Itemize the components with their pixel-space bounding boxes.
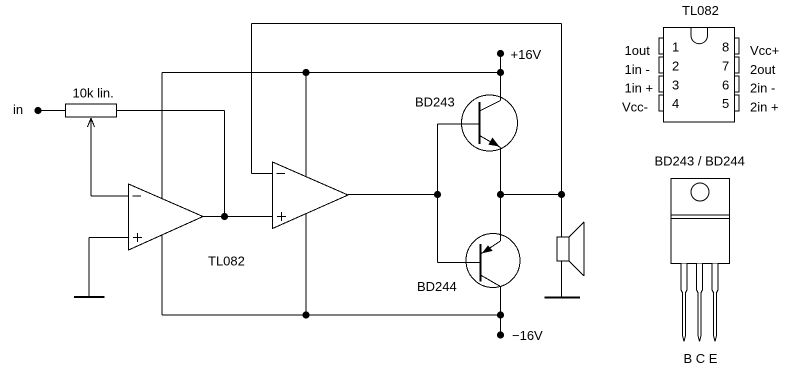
wire Q2 emitter up to output node [500,195,502,242]
IC package TL082 DIP-8 body [664,28,735,123]
wire U1B V+ supply [305,73,307,177]
pin 5 stub [735,95,740,111]
pin 4 stub [659,95,664,111]
speaker LS1 [557,222,584,276]
wire U1B inverting input feedback (left vertical + top rail) [252,24,562,195]
transistor Q2 BD244 PNP [466,234,520,288]
svg-text:6: 6 [722,78,729,93]
node U1A output junction [221,213,228,220]
wire base bus vertical Q1 base to Q2 base [437,124,439,263]
wire to Q1 base [438,123,479,125]
wire Q1 emitter down to output node [500,148,502,195]
wire U1A V- supply (triangle bottom edge to negative rail) [161,235,163,316]
pin 7 stub [735,57,740,73]
node V+ rail at Q1 collector [497,69,504,76]
TO-220 mounting hole [691,183,709,201]
node V- rail to U1B [302,311,309,318]
op-amp U1B TL082 [273,162,349,229]
svg-text:in: in [13,102,23,117]
svg-text:7: 7 [722,59,729,74]
node base drive junction [434,191,441,198]
svg-text:Vcc+: Vcc+ [750,43,779,58]
potentiometer P1 10k lin. body [66,86,117,118]
wire stub to -16V terminal [500,315,502,335]
node emitter output junction [497,191,504,198]
TO-220 leg C [697,264,703,342]
svg-text:TL082: TL082 [208,254,245,269]
wire U1A V+ supply (from +16V rail to triangle top edge) [161,73,163,199]
transistor package TO-220 outline [671,179,730,264]
svg-text:1in -: 1in - [625,62,650,77]
svg-text:5: 5 [722,96,729,111]
svg-text:+16V: +16V [511,47,542,62]
wire U1A output [203,216,225,218]
svg-text:10k lin.: 10k lin. [73,86,114,101]
svg-text:3: 3 [672,78,679,93]
svg-text:1in +: 1in + [625,81,654,96]
wire input to potentiometer [38,110,66,112]
svg-text:BD244: BD244 [417,279,457,294]
transistor Q1 BD243 NPN [462,95,518,151]
wire U1B V- supply [305,214,307,315]
potentiometer wiper arrow [88,118,95,196]
pin 3 stub [659,76,664,92]
svg-text:B C E: B C E [684,351,718,366]
pin 1 stub [659,38,664,54]
node speaker / feedback junction [558,191,565,198]
wire potentiometer right terminal to output node [117,111,225,217]
svg-text:−16V: −16V [512,328,543,343]
wire U1A non-inverting input to ground [89,238,129,297]
svg-text:1out: 1out [625,43,651,58]
node in (input terminal) [13,102,42,117]
svg-text:1: 1 [672,40,679,55]
node +16V terminal [497,47,542,62]
svg-text:8: 8 [722,40,729,55]
pin 2 stub [659,57,664,73]
wire wiper to op-amp U1A inverting input [91,195,129,197]
node -16V terminal [497,328,543,343]
svg-text:Vcc-: Vcc- [622,100,648,115]
pin 6 stub [735,76,740,92]
svg-text:4: 4 [672,96,679,111]
svg-text:TL082: TL082 [682,3,719,18]
pin 8 stub [735,38,740,54]
wire to Q2 base [438,262,480,264]
svg-text:2out: 2out [750,62,776,77]
wire speaker node down to speaker [561,195,563,238]
node V- rail at Q2 collector [497,311,504,318]
wire output node to speaker node [501,194,562,196]
svg-text:2in -: 2in - [750,81,775,96]
wire Q1 collector to +16V [500,54,502,101]
svg-text:2in +: 2in + [750,100,779,115]
node V+ rail to U1B [302,69,309,76]
wire speaker to ground [561,261,563,297]
TO-220 leg B [681,264,687,342]
wire U1A output node to U1B non-inverting input [225,216,273,218]
wire V+ supply rail horizontal [162,72,501,74]
op-amp U1A TL082 [129,184,204,250]
TO-220 leg E [712,264,718,342]
svg-text:BD243: BD243 [415,95,455,110]
ground (speaker) [545,297,581,299]
wire V- supply rail horizontal [162,314,501,316]
wire U1B output to base node [348,194,438,196]
wire Q2 collector to -16V [500,287,502,316]
svg-text:2: 2 [672,59,679,74]
ground (U1A + input) [74,296,105,298]
svg-text:BD243 / BD244: BD243 / BD244 [655,154,745,169]
